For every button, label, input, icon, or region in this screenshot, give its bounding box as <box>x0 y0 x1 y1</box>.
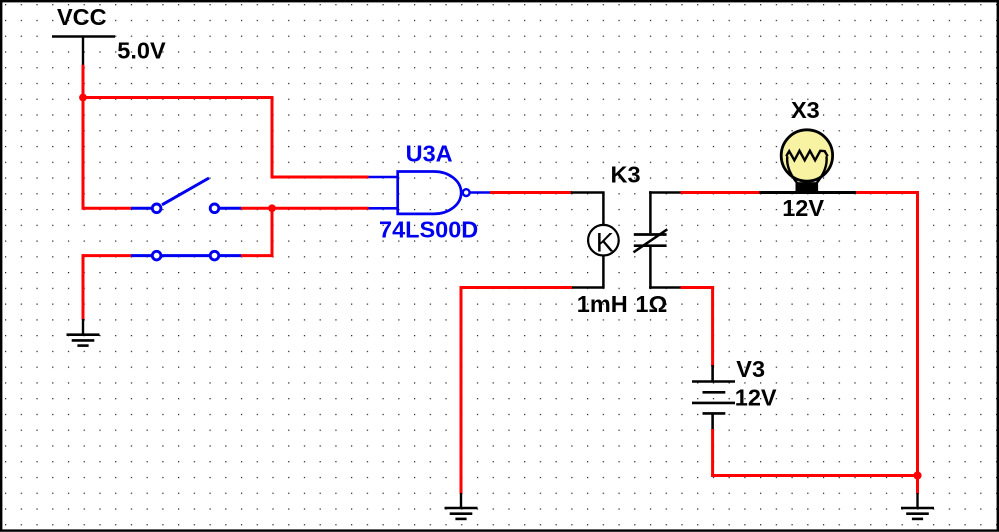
lamp pin wire <box>760 191 857 194</box>
svg-text:X3: X3 <box>791 97 820 123</box>
svg-text:5.0V: 5.0V <box>117 38 166 64</box>
wire switch S2 right <box>241 254 274 257</box>
svg-text:U3A: U3A <box>406 140 453 166</box>
relay contact K3 <box>634 191 682 289</box>
battery V3 <box>692 365 735 431</box>
relay coil K3 <box>571 193 619 288</box>
wire switch S1 left <box>83 207 132 210</box>
switch S1 (open) <box>131 178 241 213</box>
wire battery bottom <box>711 429 714 477</box>
wire coil bottom to ground <box>460 286 573 289</box>
ground (left) <box>67 319 100 346</box>
wire contact bottom to battery <box>681 286 715 289</box>
wire switch S1 right to junction <box>241 207 274 210</box>
ground (center) <box>445 493 478 519</box>
wire to gate input A <box>271 176 369 179</box>
svg-text:1Ω: 1Ω <box>635 291 667 317</box>
svg-text:12V: 12V <box>782 195 824 221</box>
wire VCC vertical to switch S1 <box>82 65 85 210</box>
wire junction down to switch S2 row <box>271 207 274 257</box>
svg-text:K3: K3 <box>611 161 641 187</box>
wire vertical down to gate input A <box>271 96 274 179</box>
svg-text:74LS00D: 74LS00D <box>379 216 478 242</box>
wire vertical to battery top <box>711 286 714 367</box>
wire vertical to center ground <box>460 286 463 494</box>
gate input pin A <box>369 176 398 179</box>
wire switch S2 left <box>83 254 132 257</box>
op-amp U3A nand gate body <box>398 172 461 214</box>
svg-text:12V: 12V <box>735 385 777 411</box>
wire lamp row left <box>681 191 760 194</box>
wire bottom horizontal <box>711 474 919 477</box>
gate output pin <box>471 191 493 194</box>
gate inversion bubble <box>463 189 470 196</box>
ground (right) <box>901 493 934 519</box>
junction at VCC column <box>79 94 87 102</box>
wire lamp right <box>856 191 919 194</box>
VCC power symbol <box>52 37 115 67</box>
gate input pin B <box>369 207 398 210</box>
svg-text:V3: V3 <box>736 356 765 382</box>
svg-text:K: K <box>596 228 614 258</box>
svg-text:VCC: VCC <box>57 4 107 30</box>
lamp X3 <box>781 130 832 191</box>
wire right vertical <box>916 191 919 494</box>
switch S2 (closed) <box>131 251 241 260</box>
svg-text:1mH: 1mH <box>577 291 628 317</box>
wire VCC top horizontal <box>82 96 274 99</box>
wire to gate input B <box>272 207 369 210</box>
wire switch S2 to ground <box>82 254 85 319</box>
junction node switch outputs <box>268 204 276 212</box>
junction bottom right <box>913 471 921 479</box>
wire gate output to relay coil <box>490 191 572 194</box>
